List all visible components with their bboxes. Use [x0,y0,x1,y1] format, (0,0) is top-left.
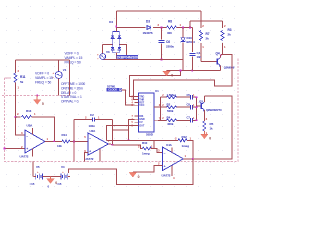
resistor R8 [167,26,177,29]
resistor R7 [200,31,203,41]
wire [189,21,191,28]
V1 parameter text [35,72,53,85]
svg-text:2KBP04M/100: 2KBP04M/100 [117,55,138,59]
wire [158,119,161,121]
wire [191,57,193,71]
wire [161,106,167,108]
resistor R6 [167,96,177,99]
wire mid rail [103,59,183,61]
node op3 out [192,158,194,160]
wire [15,96,17,118]
wire [191,28,193,53]
svg-text:−: − [89,137,91,141]
svg-text:400k: 400k [167,122,174,126]
svg-text:UA772: UA772 [85,157,94,161]
wire [203,131,205,133]
wire [203,110,205,121]
node [4,148,6,150]
junction [182,27,184,29]
wire output return loop [69,159,193,185]
wire [222,43,224,55]
wire [153,27,167,29]
svg-text:0: 0 [42,102,44,106]
svg-text:1N4076: 1N4076 [143,31,153,35]
wire op1 minus in [16,117,26,135]
svg-text:100n: 100n [89,124,96,128]
wire bridge left [103,44,113,46]
svg-text:0: 0 [171,74,173,78]
wire [153,140,155,148]
svg-text:STARTVAL = 1: STARTVAL = 1 [61,95,82,99]
junction [180,70,182,72]
bridge rectifier D4 [111,32,121,53]
svg-text:Q4: Q4 [216,52,220,56]
wire [113,129,129,131]
node [128,139,130,141]
svg-text:+: + [26,147,28,151]
svg-text:FREQ = 50: FREQ = 50 [35,81,51,85]
wire op1 plus in [5,148,25,150]
svg-text:1.5Meg: 1.5Meg [167,93,177,97]
wire op3 v+ stub [171,148,173,153]
wire [15,83,17,96]
wire Q3 collector loop [193,96,232,159]
svg-text:0: 0 [55,181,57,185]
wire [182,43,184,60]
capacitor C5 [190,95,192,99]
wire [106,126,134,141]
svg-text:1meg: 1meg [182,144,190,148]
value CLOCK [107,88,119,91]
wire bridge right [119,45,126,60]
svg-text:FREQ = 50: FREQ = 50 [65,61,81,65]
node op2 out [112,144,114,146]
svg-text:OUT: OUT [139,124,145,127]
wire [183,158,193,160]
svg-text:U2A: U2A [90,129,97,133]
wire [177,27,193,29]
node bridge+ [115,26,117,28]
svg-text:=15: =15 [57,182,62,186]
svg-text:300: 300 [167,31,172,35]
resistor R2 [167,106,177,109]
svg-text:R4: R4 [167,116,171,120]
wire [102,45,104,54]
svg-text:500k: 500k [167,109,174,113]
wire rail 21 [190,20,223,22]
svg-text:2200u: 2200u [166,45,174,49]
wire [161,28,163,40]
clock symbol [119,88,122,91]
wire [73,120,75,142]
resistor R12 [178,139,187,142]
wire [182,60,184,71]
svg-text:−: − [164,152,166,156]
wire [219,55,221,58]
wire [177,119,191,121]
ground 0 [129,172,140,179]
svg-text:D3: D3 [146,20,150,24]
resistor R13 [22,116,32,119]
svg-text:VCC: VCC [139,104,144,107]
resistor R14 [62,140,70,143]
wire op2 plus in [84,153,88,162]
wire op1 v+ stub [32,128,34,134]
node gnd tap [36,95,38,97]
op-amp U4A [162,147,183,171]
wire [115,28,117,32]
svg-text:VOFF = 0: VOFF = 0 [65,52,79,56]
transistor Q4 [217,58,220,67]
wire [197,105,201,107]
wire [108,143,112,145]
wire [182,28,184,38]
svg-text:UA772: UA772 [162,174,171,178]
svg-text:0: 0 [138,175,140,179]
wire [74,119,92,121]
IC U1 pin names [139,95,145,127]
wire [58,60,60,72]
svg-text:10n: 10n [197,55,202,59]
capacitor C6 [159,40,165,42]
capacitor C8 [190,105,192,109]
wire [222,21,224,28]
svg-text:V5: V5 [36,165,40,169]
wire [161,44,163,60]
wire op1 v- stub [32,149,34,157]
wire [219,66,221,71]
wire right rail [196,97,198,120]
wire net y95.5 [2,95,69,97]
node [73,141,75,143]
svg-text:R10: R10 [142,141,148,145]
wire op2 v- stub [99,149,101,162]
IC U1 pin numbers [132,95,161,127]
diode D3 [147,26,151,30]
wire [45,141,62,143]
resistor R3 [221,31,224,41]
wire [51,176,59,178]
svg-text:+: + [164,165,166,169]
wire to op3 minus [150,149,162,153]
wire feedback op1 [32,117,55,141]
wire left rail [160,97,162,120]
svg-text:C6: C6 [166,40,170,44]
junction [196,96,198,98]
svg-text:−: − [26,134,28,138]
IC U1 555 [139,93,155,132]
ground 0 [163,71,174,78]
wire [15,60,17,73]
wire top rail [116,10,201,12]
wire [70,141,88,143]
svg-text:2k: 2k [228,33,232,37]
svg-text:BZX84: BZX84 [187,40,196,44]
wire [193,119,197,121]
op-amp U2A [88,133,108,155]
wire [16,116,21,118]
wire op3 plus in [133,165,163,171]
wire Q4 collector loop [134,55,233,100]
node Q4 collector [220,54,222,56]
resistor R11 [14,73,17,83]
junction [15,116,17,118]
resistor R10 [142,147,151,150]
svg-text:UA772: UA772 [20,154,29,158]
wire [32,162,34,177]
wire [95,119,113,121]
svg-text:ONTIME = 20m: ONTIME = 20m [61,86,83,90]
wire [177,96,191,98]
wire loop top [16,59,70,61]
wire ground rail [167,70,221,72]
capacitor C2 [92,117,94,121]
junction [161,59,163,61]
wire [113,145,143,149]
V3 parameter text [65,52,83,65]
wire [130,71,181,97]
junction [189,27,191,29]
capacitor C4 [189,53,195,55]
svg-text:=15: =15 [30,182,35,186]
wire [193,96,197,98]
svg-text:R3: R3 [228,28,232,32]
wire [200,11,202,28]
svg-text:U3A: U3A [27,123,34,127]
wire [45,176,51,178]
wire net y140 [106,139,178,141]
svg-text:C2: C2 [90,113,94,117]
svg-text:2k: 2k [206,37,210,41]
svg-text:U4A: U4A [166,143,173,147]
wire [203,96,205,102]
svg-text:555D: 555D [146,133,154,137]
transistor Q3 [201,102,204,111]
wire [73,142,75,162]
svg-text:CLOCK: CLOCK [108,88,117,92]
value bridge 2KBP04M [117,55,139,59]
battery V5 [34,170,45,180]
svg-text:V4: V4 [61,165,65,169]
wire [161,96,167,98]
sine source V3 [97,53,106,61]
wire [193,106,197,108]
wire [112,120,114,145]
svg-text:OPPVAL = 0: OPPVAL = 0 [61,100,79,104]
sine source V1 [52,71,62,79]
junction [161,27,163,29]
svg-text:Q2N2222/ZTX: Q2N2222/ZTX [206,108,222,112]
svg-text:R11: R11 [20,75,26,79]
wire [68,60,70,96]
svg-text:R12: R12 [182,135,188,139]
svg-text:V3: V3 [106,50,110,54]
zener diode D10 [180,38,185,43]
svg-text:R2: R2 [167,103,171,107]
battery V4 [59,170,70,180]
ground 0 [33,96,44,106]
wire [58,79,60,96]
svg-text:U1: U1 [155,89,159,93]
wire [158,106,161,108]
svg-text:0: 0 [209,136,211,140]
wire clock to U1 [122,90,135,105]
svg-text:R13: R13 [26,109,32,113]
stimulus parameter text [61,82,85,104]
IC U1 pins [135,97,159,126]
wire [129,119,135,140]
junction [196,106,198,108]
svg-text:D4: D4 [109,20,113,24]
svg-text:Q2N6059: Q2N6059 [224,66,235,70]
wire [200,43,202,62]
svg-text:1meg: 1meg [142,151,150,155]
wire [161,119,167,121]
wire [116,27,145,29]
ground 0 [47,177,58,186]
wire op3 v- stub [171,166,173,177]
ground 0 [201,132,212,141]
svg-text:V1: V1 [63,68,67,72]
svg-text:R5: R5 [210,122,214,126]
wire [115,11,117,27]
wire [115,53,117,60]
junction [196,119,198,121]
svg-text:R7: R7 [206,32,210,36]
svg-text:DELAY = 0: DELAY = 0 [61,91,76,95]
node op1 out [53,140,55,142]
svg-text:OFFTIME = 1000: OFFTIME = 1000 [61,82,85,86]
svg-text:R14: R14 [62,133,68,137]
svg-text:12k: 12k [57,144,62,148]
wire [177,106,191,108]
svg-text:R8: R8 [168,20,172,24]
svg-text:VAMPL = 15: VAMPL = 15 [35,76,53,80]
svg-text:Q3: Q3 [199,99,203,103]
resistor R4 [167,119,177,122]
capacitor C7 [190,118,192,122]
wire [187,140,193,159]
svg-text:+: + [89,149,91,153]
junction [191,70,193,72]
op-amp U3A [25,130,45,153]
svg-text:VAMPL = 15: VAMPL = 15 [65,56,83,60]
svg-text:5k: 5k [20,80,24,84]
resistor R5 [203,121,206,131]
svg-text:VOFF = 0: VOFF = 0 [35,72,49,76]
wire Q4 base wire [201,61,217,63]
